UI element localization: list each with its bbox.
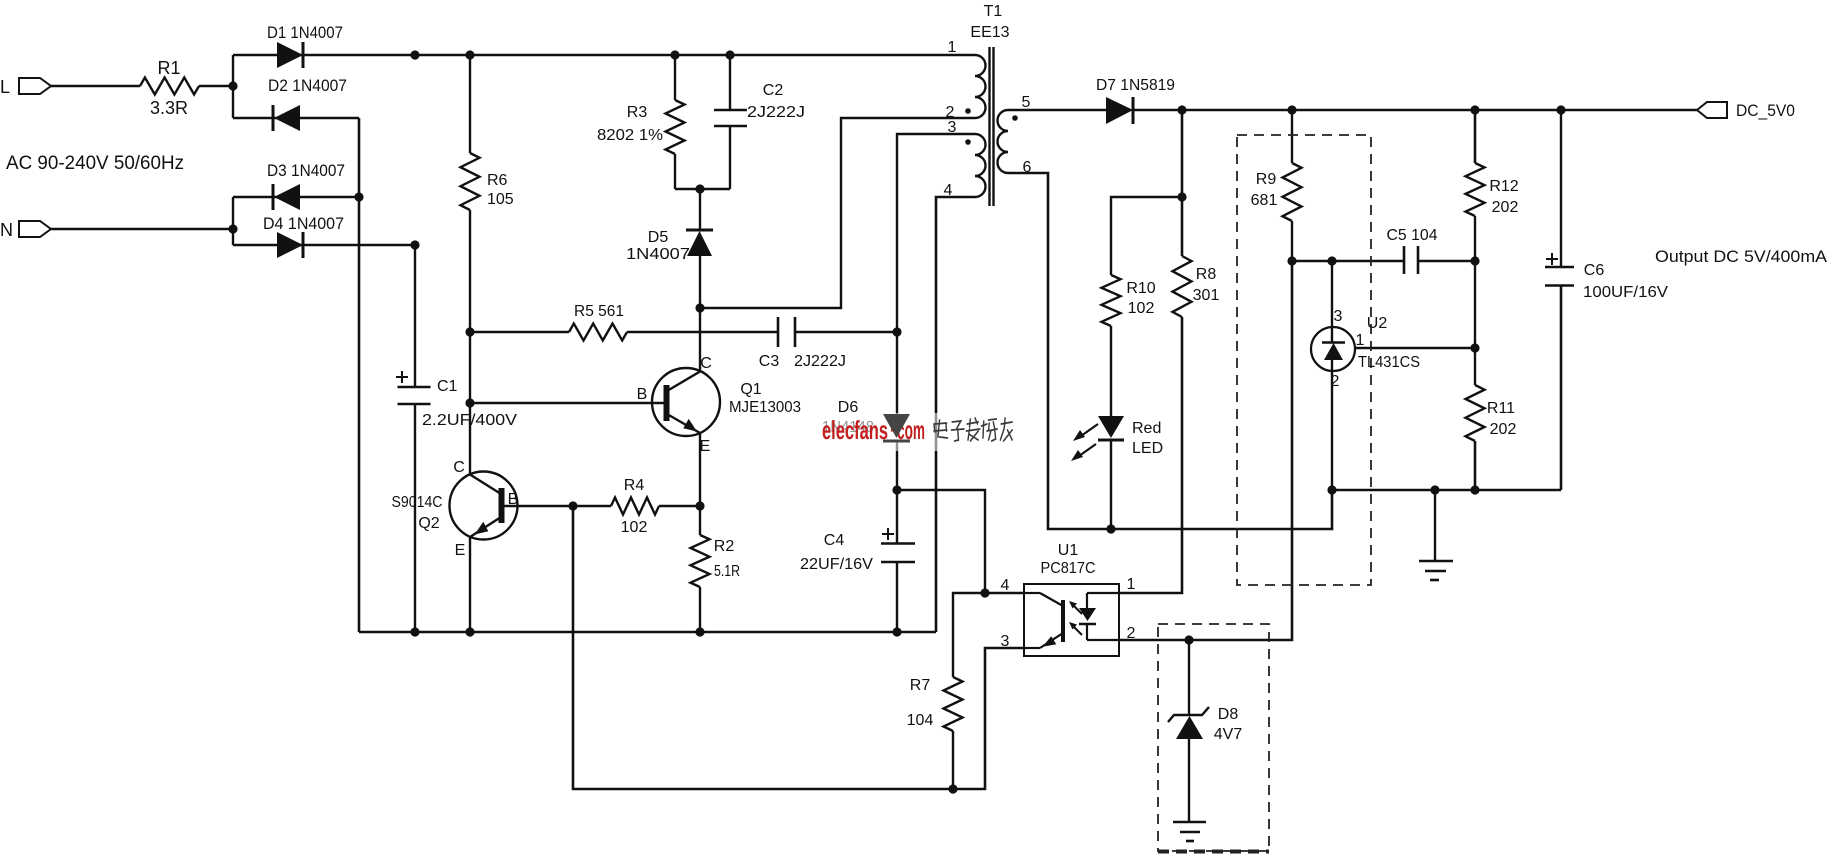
wire R10 jog	[1111, 197, 1182, 275]
svg-text:C6: C6	[1584, 262, 1605, 279]
svg-text:3: 3	[1334, 308, 1343, 325]
label AC input	[6, 153, 184, 174]
svg-text:D5: D5	[648, 229, 669, 246]
wire primary ground bottom rail	[359, 631, 936, 634]
node C1 to ground rail	[410, 627, 419, 636]
svg-text:MJE13003: MJE13003	[729, 399, 801, 416]
svg-text:C2: C2	[763, 82, 784, 99]
svg-text:D4 1N4007: D4 1N4007	[263, 214, 344, 233]
svg-text:1N4007: 1N4007	[626, 246, 690, 263]
svg-text:C5 104: C5 104	[1387, 227, 1438, 244]
wire Q1 base line	[470, 402, 666, 404]
svg-text:D3 1N4007: D3 1N4007	[267, 161, 345, 180]
transformer primary winding pins 1-2	[946, 39, 986, 121]
svg-text:1: 1	[1127, 576, 1136, 593]
svg-text:301: 301	[1193, 287, 1220, 304]
wire +5V output line	[1133, 109, 1697, 112]
svg-text:Output DC 5V/400mA: Output DC 5V/400mA	[1655, 247, 1828, 266]
svg-text:5: 5	[1022, 94, 1031, 111]
node R2 to ground rail	[695, 627, 704, 636]
capacitor C2 2J222J	[714, 55, 805, 189]
svg-text:5.1R: 5.1R	[714, 563, 740, 580]
wire Q2 base line	[503, 505, 611, 507]
node R11 bottom	[1470, 485, 1479, 494]
wire C1 branch vertical	[414, 245, 416, 632]
capacitor C1 2.2UF/400V (bulk)	[396, 371, 517, 429]
wire D6 node to opto pin4	[897, 490, 1024, 593]
node N-bridge junction	[228, 224, 237, 233]
svg-text:D1 1N4007: D1 1N4007	[267, 23, 343, 42]
wire pin5 to D7	[1008, 109, 1106, 111]
wire Q1 emitter to R2/R4 node	[699, 433, 701, 506]
svg-text:2J222J: 2J222J	[747, 104, 805, 121]
node Q1 emitter / R4 / R2	[695, 501, 704, 510]
resistor R3 8202 1%	[597, 55, 685, 189]
svg-text:105: 105	[487, 191, 514, 208]
svg-text:PC817C: PC817C	[1041, 560, 1096, 577]
node Q2 base / R7 feedback junction	[568, 501, 577, 510]
node R6 top on + rail	[465, 50, 474, 59]
svg-text:22UF/16V: 22UF/16V	[800, 556, 873, 573]
svg-text:elecfans: elecfans	[822, 415, 888, 445]
node Q1 base tap	[465, 398, 474, 407]
node D7 to R8/R10 branch	[1177, 105, 1186, 114]
node snubber to D5	[695, 184, 704, 193]
resistor R1	[140, 58, 199, 118]
svg-text:4V7: 4V7	[1214, 726, 1243, 743]
resistor R12 202	[1466, 110, 1519, 261]
svg-text:TL431CS: TL431CS	[1358, 354, 1420, 371]
svg-text:E: E	[700, 438, 711, 455]
svg-text:S9014C: S9014C	[392, 494, 443, 511]
svg-text:N: N	[0, 220, 13, 240]
svg-text:E: E	[455, 542, 466, 559]
wire D6 to C4	[896, 441, 898, 543]
wire pin3 to C3/D6 riser	[897, 134, 975, 414]
svg-text:R11: R11	[1487, 400, 1515, 417]
svg-text:D8: D8	[1218, 706, 1239, 723]
watermark band	[816, 413, 1024, 451]
wire N to bridge	[51, 228, 233, 230]
svg-text:Q2: Q2	[418, 515, 439, 532]
polarity dot pin3	[965, 139, 971, 145]
node C4 to ground rail	[892, 627, 901, 636]
wire U2 ref line	[1355, 347, 1475, 349]
svg-text:DC_5V0: DC_5V0	[1736, 101, 1795, 120]
wire snubber bottom bar	[675, 188, 730, 190]
svg-text:102: 102	[1128, 300, 1155, 317]
wire R8 branch vertical	[1181, 110, 1184, 256]
svg-text:2: 2	[1331, 373, 1340, 390]
svg-text:R2: R2	[714, 538, 735, 555]
node U2 anode / secondary ground net	[1327, 485, 1336, 494]
wire Q2 emitter to ground rail	[469, 537, 471, 632]
node R3/C2 top on + rail	[670, 50, 734, 59]
dashed box zener network	[1158, 624, 1269, 852]
diode D6 1N4148	[822, 399, 874, 436]
resistor R9 681	[1251, 110, 1302, 261]
svg-text:Q1: Q1	[740, 381, 761, 398]
node U2 ref tap	[1470, 343, 1479, 352]
node Q2 emitter rail junction	[465, 627, 474, 636]
svg-text:R10: R10	[1126, 280, 1155, 297]
transformer secondary winding pins 5-6	[998, 94, 1032, 176]
resistor R4 102	[611, 477, 700, 536]
svg-text:681: 681	[1251, 192, 1278, 209]
svg-text:R1: R1	[157, 58, 180, 78]
svg-text:C3: C3	[759, 353, 780, 370]
node R9 top on +5V	[1287, 105, 1296, 114]
svg-text:4: 4	[1001, 577, 1010, 594]
node R12/C5/R11 divider net	[1470, 256, 1479, 265]
dashed box feedback network	[1237, 135, 1371, 585]
wire R6 to Q1 base node	[469, 210, 471, 474]
svg-text:R9: R9	[1256, 171, 1277, 188]
svg-text:U1: U1	[1058, 542, 1079, 559]
polarity dot pin5	[1012, 115, 1018, 121]
diode D7 1N5819	[1096, 77, 1175, 124]
svg-text:R12: R12	[1489, 178, 1518, 195]
ground symbol (zener D8)	[1173, 822, 1206, 841]
svg-text:EE13: EE13	[970, 24, 1009, 41]
capacitor C5 104	[1387, 227, 1476, 274]
wire secondary ground from pin6	[1008, 173, 1332, 529]
watermark chinese characters	[934, 418, 1012, 441]
svg-text:C: C	[453, 459, 465, 476]
diode D6 symbol (over watermark)	[883, 414, 910, 441]
label output rating	[1655, 247, 1828, 266]
wire R1 to bridge node	[199, 85, 233, 87]
resistor R8 301	[1173, 256, 1220, 317]
wire R8 to opto pin1	[1119, 317, 1182, 593]
svg-text:R3: R3	[627, 104, 648, 121]
wire Q1 collector	[699, 308, 701, 371]
svg-text:D7 1N5819: D7 1N5819	[1096, 77, 1175, 94]
svg-text:B: B	[637, 386, 648, 403]
wire secondary ground bus	[1332, 489, 1561, 492]
svg-text:100UF/16V: 100UF/16V	[1583, 284, 1668, 301]
node D1 cathode on +rail	[410, 50, 419, 59]
resistor R7 104	[907, 593, 985, 789]
svg-text:Red: Red	[1132, 420, 1161, 437]
wire primary winding pin2 jog	[700, 118, 975, 308]
node C3 to feedback winding pin3 riser	[892, 327, 901, 336]
svg-text:AC 90-240V 50/60Hz: AC 90-240V 50/60Hz	[6, 153, 184, 174]
svg-text:2: 2	[1127, 625, 1136, 642]
resistor R10 102	[1102, 275, 1156, 326]
resistor R11 202	[1466, 385, 1517, 490]
svg-text:3.3R: 3.3R	[150, 98, 188, 118]
svg-text:202: 202	[1492, 199, 1519, 216]
svg-text:L: L	[0, 77, 10, 97]
svg-text:C: C	[700, 355, 712, 372]
svg-text:C4: C4	[824, 532, 845, 549]
wire compensation net	[1292, 260, 1404, 262]
svg-text:D2 1N4007: D2 1N4007	[268, 76, 347, 95]
svg-text:104: 104	[907, 712, 934, 729]
svg-text:R8: R8	[1196, 266, 1217, 283]
node D5 anode / primary pin2 / Q1 collector	[695, 303, 704, 312]
transistor Q1 MJE13003	[637, 355, 801, 455]
node R7 bottom on feedback line	[948, 784, 957, 793]
resistor R5 561	[470, 303, 778, 341]
ground symbol (secondary)	[1419, 490, 1453, 580]
connector DC_5V0 output	[1697, 101, 1795, 120]
diode D1 1N4007	[233, 23, 415, 68]
svg-text:R4: R4	[624, 477, 645, 494]
zener diode D8 4V7	[1168, 640, 1242, 822]
svg-text:8202 1%: 8202 1%	[597, 127, 663, 144]
svg-text:1: 1	[1356, 332, 1365, 349]
node R5 left junction	[465, 327, 474, 336]
LED D-Red indicator	[1071, 416, 1163, 529]
transformer feedback winding pins 3-4	[944, 119, 986, 199]
optocoupler U1 PC817C	[1001, 542, 1136, 656]
node R7 top / opto pin4	[980, 588, 989, 597]
watermark elecfans.com	[822, 415, 925, 445]
svg-text:R5 561: R5 561	[574, 303, 624, 320]
resistor R6 105	[461, 55, 514, 210]
shunt regulator U2 TL431CS	[1311, 261, 1420, 490]
wire opto LED cathode riser	[1119, 261, 1292, 640]
svg-text:202: 202	[1490, 421, 1517, 438]
wire pin4 to primary ground rail	[936, 197, 975, 632]
svg-text:2J222J: 2J222J	[794, 353, 846, 370]
svg-text:3: 3	[1001, 633, 1010, 650]
wire bridge left vertical (D1/D2 side)	[232, 55, 234, 118]
node D4 cathode junction	[410, 240, 419, 249]
wire bridge left vertical (D3/D4 side)	[232, 197, 234, 245]
node LED cathode to secondary ground	[1106, 524, 1115, 533]
resistor R2 5.1R	[691, 506, 741, 632]
svg-text:U2: U2	[1367, 315, 1388, 332]
svg-text:T1: T1	[984, 3, 1003, 20]
node R10 tap	[1177, 192, 1186, 201]
capacitor C3 2J222J	[759, 317, 897, 370]
diode D5 1N4007 (clamp)	[626, 189, 713, 308]
svg-text:R6: R6	[487, 172, 508, 189]
polarity dot pin2	[965, 108, 971, 114]
wire Q2-base to opto feedback line	[573, 506, 1024, 789]
wire L to R1	[51, 85, 140, 87]
wire R10 to LED	[1110, 326, 1112, 416]
transformer T1 EE13 core	[970, 3, 1009, 206]
node R12 top on +5V	[1470, 105, 1479, 114]
connector N (AC neutral input)	[0, 220, 51, 240]
node U2 cathode riser junction	[1327, 256, 1336, 265]
svg-text:R7: R7	[910, 677, 931, 694]
wire negative-rail vertical from D2/D3	[358, 118, 361, 632]
node ground symbol tap	[1430, 485, 1439, 494]
node D6 anode / C4 / opto pin4 net	[892, 485, 901, 494]
node D8 tap on opto cathode line	[1184, 635, 1193, 644]
node D3 anode to negative rail	[354, 192, 363, 201]
diode D4 1N4007	[233, 214, 415, 258]
connector L (AC live input)	[0, 77, 51, 97]
capacitor C6 100UF/16V	[1545, 110, 1668, 490]
diode D3 1N4007	[233, 161, 359, 210]
wire rectified + rail (top)	[415, 54, 975, 57]
transistor Q2 S9014C	[392, 459, 519, 559]
node C6 top on +5V	[1556, 105, 1565, 114]
diode D2 1N4007	[233, 76, 359, 131]
capacitor C4 22UF/16V	[800, 528, 915, 632]
node R9 / C5 / U2 cathode net	[1287, 256, 1296, 265]
wire divider vertical to ref	[1474, 261, 1476, 385]
svg-text:LED: LED	[1132, 440, 1163, 457]
node L-bridge junction	[228, 81, 237, 90]
svg-text:102: 102	[621, 519, 648, 536]
svg-text:1: 1	[948, 39, 957, 56]
svg-text:C1: C1	[437, 378, 458, 395]
